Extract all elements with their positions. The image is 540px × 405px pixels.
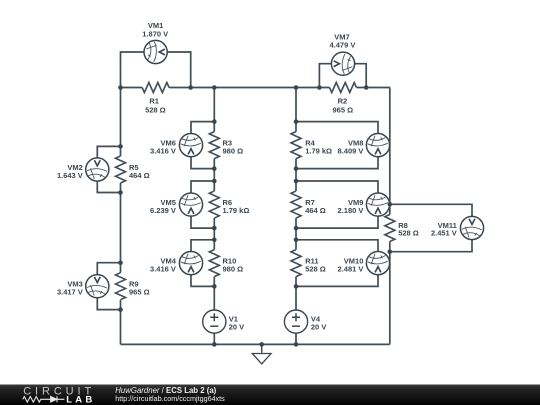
svg-text:980 Ω: 980 Ω: [223, 264, 244, 273]
svg-text:965 Ω: 965 Ω: [129, 288, 150, 297]
node V4 bottom junction: [294, 342, 299, 347]
voltmeter VM3: [86, 275, 109, 298]
resistor R3: [209, 132, 219, 159]
wire VM2 loop: [97, 146, 120, 192]
svg-text:528 Ω: 528 Ω: [398, 229, 419, 238]
node R6 bottom junction: [212, 226, 217, 231]
node ground junction: [259, 342, 264, 347]
wire VM9 loop: [296, 181, 378, 228]
wire top rail: [121, 87, 391, 89]
node R8 top junction: [388, 202, 393, 207]
svg-text:528 Ω: 528 Ω: [305, 264, 326, 273]
voltmeter VM5: [179, 193, 202, 216]
svg-text:1.870 V: 1.870 V: [142, 29, 168, 38]
svg-text:464 Ω: 464 Ω: [129, 171, 150, 180]
svg-text:3.416 V: 3.416 V: [150, 146, 176, 155]
logo resistor-diode drawing: [23, 396, 65, 402]
svg-text:LAB: LAB: [66, 394, 95, 405]
voltmeter VM2: [86, 158, 109, 181]
svg-text:6.239 V: 6.239 V: [150, 206, 176, 215]
resistor R8: [385, 215, 395, 242]
svg-text:464 Ω: 464 Ω: [305, 206, 326, 215]
resistor R7: [291, 191, 301, 218]
wire VM4 loop: [191, 240, 214, 287]
resistor R5: [116, 156, 126, 183]
wire VM1 loop: [121, 52, 191, 88]
svg-text:4.479 V: 4.479 V: [329, 41, 355, 50]
node R6 top junction: [212, 179, 217, 184]
node R5 top junction: [118, 144, 123, 149]
resistor R9: [116, 273, 126, 300]
node R7 bottom junction: [294, 226, 299, 231]
node VM7 left stub junction: [317, 85, 322, 90]
footer url text: [115, 394, 225, 403]
svg-text:3.416 V: 3.416 V: [150, 264, 176, 273]
logo LAB text: [66, 394, 95, 405]
svg-text:1.643 V: 1.643 V: [57, 171, 83, 180]
resistor R2: [330, 83, 357, 93]
logo CIRCUIT text: [23, 385, 95, 397]
wire VM8 loop: [296, 122, 378, 169]
wire left vertical: [120, 88, 122, 345]
resistor R4: [291, 132, 301, 159]
svg-text:1.79 kΩ: 1.79 kΩ: [223, 206, 250, 215]
voltmeter VM9: [366, 193, 389, 216]
node VM1 right stub junction: [188, 85, 193, 90]
node R11 top junction: [294, 238, 299, 243]
svg-text:20 V: 20 V: [229, 322, 244, 331]
voltmeter VM1: [144, 40, 167, 63]
svg-text:1.79 kΩ: 1.79 kΩ: [305, 146, 332, 155]
wire bottom rail: [121, 343, 390, 345]
svg-text:965 Ω: 965 Ω: [332, 106, 353, 115]
ground: [252, 344, 271, 364]
svg-text:8.409 V: 8.409 V: [338, 146, 364, 155]
node R7 top junction: [294, 179, 299, 184]
node A top-left junction: [118, 85, 123, 90]
node R4 top junction: [294, 119, 299, 124]
voltage source V4: [284, 310, 307, 333]
wire VM7 loop: [319, 64, 366, 88]
footer title text: [115, 386, 216, 395]
wire VM11 loop: [390, 204, 472, 251]
voltmeter VM6: [179, 134, 202, 157]
node R9 top junction: [118, 260, 123, 265]
node R5 bottom junction: [118, 190, 123, 195]
node VM7 right stub junction: [364, 85, 369, 90]
resistor R10: [209, 250, 219, 277]
svg-text:R1: R1: [149, 96, 159, 105]
svg-text:3.417 V: 3.417 V: [57, 288, 83, 297]
svg-text:http://circuitlab.com/cccmjtgg: http://circuitlab.com/cccmjtgg64xts: [115, 394, 225, 403]
svg-text:20 V: 20 V: [311, 322, 326, 331]
resistor R6: [209, 191, 219, 218]
node R4 bottom junction: [294, 166, 299, 171]
footer bar: [0, 385, 540, 405]
wire VM5 loop: [191, 181, 214, 228]
voltmeter VM4: [179, 252, 202, 275]
voltmeter VM7: [331, 52, 354, 75]
resistor R11: [291, 250, 301, 277]
node R8 bottom junction: [388, 249, 393, 254]
node R10 bottom junction: [212, 284, 217, 289]
wire VM6 loop: [191, 122, 214, 169]
wire center vertical: [213, 88, 215, 345]
svg-text:980 Ω: 980 Ω: [223, 146, 244, 155]
node R3 bottom junction: [212, 166, 217, 171]
node V1 bottom junction: [212, 342, 217, 347]
wire branch vertical: [295, 88, 297, 345]
node R10 top junction: [212, 238, 217, 243]
svg-text:2.451 V: 2.451 V: [431, 229, 457, 238]
svg-text:2.180 V: 2.180 V: [338, 206, 364, 215]
wire right rail: [389, 88, 391, 345]
resistor R1: [142, 83, 169, 93]
voltmeter VM10: [366, 252, 389, 275]
node R3 top junction: [212, 119, 217, 124]
svg-text:2.481 V: 2.481 V: [338, 264, 364, 273]
wire VM3 loop: [97, 263, 120, 310]
wire VM10 loop: [296, 240, 378, 287]
node R11 bottom junction: [294, 284, 299, 289]
voltmeter VM11: [460, 216, 483, 239]
node top rail / right branch: [294, 85, 299, 90]
voltmeter VM8: [366, 134, 389, 157]
node top rail / center branch: [212, 85, 217, 90]
voltage source V1: [203, 310, 226, 333]
svg-text:528 Ω: 528 Ω: [145, 106, 166, 115]
svg-text:R2: R2: [338, 96, 348, 105]
node R9 bottom junction: [118, 307, 123, 312]
